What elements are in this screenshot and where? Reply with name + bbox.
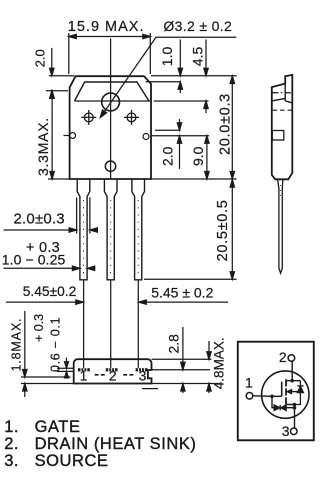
svg-text:4.5: 4.5 [190,47,206,67]
svg-text:1.0: 1.0 [159,47,175,67]
wire source [286,405,295,429]
svg-text:2.0±0.3: 2.0±0.3 [14,210,65,227]
wire gate to zeners [272,396,274,407]
bottom view pad 2 [106,368,118,371]
dimension 2.0 top-left [46,48,74,98]
svg-text:+ 0.3: + 0.3 [32,314,46,342]
schematic box [238,342,314,441]
bottom view pin number dashes [95,374,134,376]
lead 2 (center) [104,179,117,280]
pin 3 terminal [291,428,298,435]
svg-text:2: 2 [279,349,287,365]
dimension 20.0±0.3 right [151,76,237,179]
bottom view left step line [21,376,71,378]
svg-text:15.9 MAX.: 15.9 MAX. [68,19,145,35]
side view dash-dot centerline [272,92,293,94]
dimension 2.0 right-mid [151,119,209,169]
svg-text:20.5±0.5: 20.5±0.5 [215,199,231,261]
zener diode Z2 [281,405,286,411]
side view tab inner edge [284,84,286,101]
lead 3 (right) [132,179,145,280]
dimension 1.0 top [146,40,183,94]
dimension 5.45±0.2 left [6,300,83,304]
svg-text:1: 1 [245,374,253,390]
svg-text:2.0: 2.0 [159,146,175,166]
side view tab bottom line [285,101,292,103]
svg-text:4.8MAX.: 4.8MAX. [212,337,227,389]
wire body to diode [292,391,301,393]
svg-text:2.0: 2.0 [32,49,47,67]
side pin mark right [143,134,149,140]
mounting hole [102,93,120,111]
dimension 0.6 +0.3 -0.1 [57,358,74,379]
svg-text:3: 3 [282,423,290,439]
svg-text:5.45±0.2: 5.45±0.2 [23,284,77,299]
dimension 5.45±0.2 right [139,300,228,304]
wire drain [286,361,300,381]
dimension 1.0 +0.3 -0.25 lead thickness [4,266,95,270]
svg-text:2.: 2. [4,435,19,453]
dimension 9.0 right [205,136,209,179]
side view body [272,75,293,179]
node drain junction [290,379,294,383]
svg-text:1.: 1. [4,418,19,436]
svg-text:3.3MAX.: 3.3MAX. [35,117,51,176]
bottom view top extension [152,358,212,360]
svg-text:0.6 − 0.1: 0.6 − 0.1 [49,317,63,372]
dimension 3.3 MAX left [48,91,70,179]
bottom view body [74,359,152,383]
svg-text:Ø3.2 ± 0.2: Ø3.2 ± 0.2 [163,18,232,34]
side pin mark left [64,133,76,139]
body diode D1 [295,381,304,405]
bottom view right small line [142,388,158,390]
bottom view pad 3 [136,368,148,371]
side view lead [278,179,283,273]
svg-text:5.45 ± 0.2: 5.45 ± 0.2 [151,284,213,300]
bottom ejector circle [105,161,115,171]
svg-text:2.8: 2.8 [165,334,181,354]
gate electrode bar [281,382,283,397]
zener diode Z1 [274,405,280,411]
svg-text:SOURCE: SOURCE [35,452,109,470]
side view hidden hole line [273,109,292,111]
pin 2 terminal [288,355,295,362]
front view top cap inner contour [75,82,149,101]
side view chamfer line [272,98,285,101]
svg-text:3.: 3. [4,452,19,470]
lead projection centerlines [84,280,139,368]
center vertical centerline [110,39,112,180]
svg-text:1: 1 [80,368,88,384]
front view boss horizontal line [75,100,152,102]
svg-text:9.0: 9.0 [190,146,206,166]
node gate junction [270,395,274,399]
dimension 20.5±0.5 [144,180,237,280]
svg-text:GATE: GATE [35,418,81,436]
node zener-source junction [293,406,297,410]
mosfet envelope circle [262,371,309,418]
node source junction [293,403,297,407]
dimension leader Ø3.2 [100,37,236,117]
side view pin mark rectangle [272,131,284,141]
wire zeners to source [286,407,294,409]
svg-text:DRAIN (HEAT SINK): DRAIN (HEAT SINK) [35,435,197,453]
legend text [4,418,196,470]
bottom view pad 1 [78,368,90,371]
dimension 15.9 MAX [69,33,151,74]
dimension 4.5 top [154,40,209,114]
wire gate [253,395,282,398]
svg-text:20.0±0.3: 20.0±0.3 [218,93,234,155]
bottom view pad-center extension [152,369,211,371]
ejector mark left [81,110,96,125]
ejector mark right [124,110,139,125]
svg-text:3: 3 [139,368,147,384]
channel bar segments [285,379,287,404]
lead 1 (left) [77,179,90,280]
svg-text:1.0 − 0.25: 1.0 − 0.25 [2,251,66,267]
dimension 2.8 [181,327,185,393]
pin 1 terminal [246,393,253,400]
bottom view bottom extension [21,383,220,385]
dimension 1.8 MAX [23,311,27,397]
svg-text:2: 2 [109,368,117,384]
body substrate arrow [287,389,292,394]
dimension 2.0±0.3 lead width [4,198,99,234]
package front view body outline [70,76,151,179]
dimension 4.8 MAX [207,341,211,393]
svg-text:1.8MAX.: 1.8MAX. [10,318,24,372]
pad slits [81,368,144,372]
